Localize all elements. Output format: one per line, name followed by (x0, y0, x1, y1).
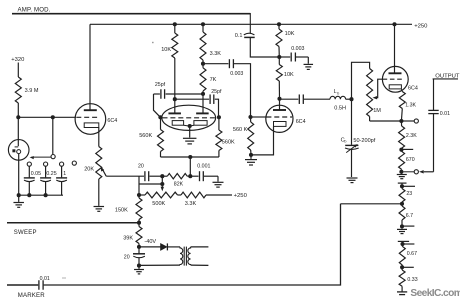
svg-text:MARKER: MARKER (18, 292, 45, 298)
svg-text:0.003: 0.003 (230, 71, 243, 77)
junction V3 grid (248, 115, 252, 119)
junction (137, 264, 141, 268)
variable capacitor Cb 50-200pf (351, 99, 353, 145)
ground (134, 269, 144, 271)
U1 plate (84, 109, 97, 111)
wire (250, 155, 252, 159)
V4 grid (383, 78, 402, 80)
junction (400, 265, 404, 269)
wire cathode node row (370, 120, 402, 122)
svg-text:20: 20 (138, 164, 144, 170)
svg-text:0.33: 0.33 (407, 277, 417, 283)
wire (138, 266, 140, 269)
svg-text:20: 20 (124, 254, 130, 260)
resistor 10K (grid) (276, 65, 282, 82)
ground (397, 291, 407, 293)
V3 grid (266, 116, 292, 118)
junction (188, 124, 192, 128)
wire tap (402, 225, 414, 227)
svg-text:6.7: 6.7 (406, 213, 413, 219)
junction (137, 221, 141, 225)
svg-text:1: 1 (63, 171, 66, 177)
svg-text:b: b (344, 140, 346, 144)
wire (139, 264, 180, 266)
resistor 1.3K (399, 92, 405, 109)
svg-text:23: 23 (406, 191, 412, 197)
wire cross-coupling (166, 93, 203, 95)
V2a plate (168, 112, 181, 114)
ground (397, 228, 407, 230)
V2 grids (163, 117, 216, 119)
junction (188, 174, 192, 178)
wire (206, 194, 232, 196)
triode U1 6C4 (75, 104, 106, 135)
wire cathode lead (98, 128, 100, 147)
junction (400, 184, 404, 188)
svg-text:0.01: 0.01 (40, 276, 50, 282)
ground (347, 177, 358, 179)
wire (433, 114, 435, 172)
svg-text:20K: 20K (84, 167, 94, 173)
wire plate lead V2a (174, 58, 176, 113)
resistor 82K (167, 174, 187, 179)
svg-text:0.05: 0.05 (31, 171, 41, 177)
svg-text:500K: 500K (152, 201, 165, 207)
junction (16, 115, 20, 119)
tap bar (398, 182, 407, 184)
wire tap to marker net (341, 203, 403, 205)
transformer T1 primary (180, 247, 183, 265)
svg-text:0.01: 0.01 (440, 111, 450, 117)
svg-text:560 K: 560 K (233, 127, 248, 133)
svg-text:560K: 560K (222, 139, 235, 145)
wire tap (402, 266, 414, 268)
wire (307, 57, 309, 64)
capacitor (coupling) (279, 98, 281, 100)
triode V3 6C4 (266, 105, 293, 132)
svg-text:0.003: 0.003 (291, 46, 304, 52)
switch contact 1 (27, 162, 31, 166)
wire to 1M top (352, 62, 370, 99)
ground (397, 174, 407, 176)
svg-text:1.3K: 1.3K (405, 103, 416, 109)
wire secondary top lead (191, 246, 209, 248)
transformer T1 core (183, 247, 185, 266)
svg-text:6C4: 6C4 (296, 119, 306, 125)
wire (369, 117, 371, 122)
resistor 3.3K (181, 192, 206, 198)
speck (62, 277, 66, 279)
wire (17, 103, 19, 117)
wire to grid V2a (154, 94, 161, 117)
junction V2b plate node (201, 92, 205, 96)
svg-text:-40V: -40V (144, 239, 156, 245)
phototube V1 (17, 117, 19, 146)
junction (201, 62, 205, 66)
junction V2a grid (158, 115, 162, 119)
wire secondary bottom lead (191, 264, 209, 266)
resistor 150K (136, 198, 142, 220)
svg-text:3.9 M: 3.9 M (25, 88, 39, 94)
resistor 10K (left) (174, 24, 176, 33)
resistor 560K (right grid leak) (218, 117, 220, 130)
wire to V3 grid (234, 64, 251, 117)
switch contact 3 (60, 162, 64, 166)
junction (249, 153, 253, 157)
switch S1 wiper arm (32, 156, 51, 158)
500K wiper arrow (161, 187, 164, 192)
dual triode V2 (162, 105, 216, 130)
junction (137, 245, 141, 249)
svg-text:b: b (337, 92, 339, 96)
resistor 670 (400, 150, 402, 152)
svg-text:39K: 39K (123, 236, 133, 242)
switch contact 4 (72, 161, 76, 165)
svg-text:7K: 7K (210, 77, 217, 83)
svg-text:SWEEP: SWEEP (14, 230, 37, 236)
svg-text:82K: 82K (174, 182, 184, 188)
svg-text:560K: 560K (139, 133, 152, 139)
svg-text:3.3K: 3.3K (210, 51, 222, 57)
V2a cathode (172, 121, 183, 126)
capacitor 1 (61, 166, 63, 177)
junction (277, 55, 281, 59)
wire tap (403, 243, 415, 245)
wire (250, 37, 279, 57)
wire (167, 246, 180, 248)
wire (189, 126, 191, 138)
junction (188, 155, 192, 159)
junction V3 plate node (277, 97, 281, 101)
wire (304, 98, 330, 100)
resistor 560K (left grid leak) (160, 117, 162, 129)
wire to grid V2b (215, 99, 219, 117)
V2b cathode (194, 121, 207, 126)
junction (399, 119, 403, 123)
junction (44, 193, 48, 197)
wire (17, 63, 19, 78)
wire plate lead V2b (202, 91, 204, 113)
Cb arrow (346, 145, 356, 152)
wire ground bus (17, 194, 63, 196)
V2b plate (196, 112, 209, 114)
svg-text:0.5H: 0.5H (334, 106, 346, 112)
svg-text:0.1: 0.1 (235, 33, 243, 39)
junction (201, 22, 205, 26)
junction (27, 193, 31, 197)
wire tap (402, 185, 415, 187)
svg-text:6C4: 6C4 (408, 86, 418, 92)
junction V2a plate node (173, 97, 177, 101)
triode V4 6C4 (382, 66, 408, 92)
wire (401, 226, 403, 228)
wire (400, 172, 402, 174)
ground (304, 63, 314, 65)
svg-text:+250: +250 (414, 24, 428, 30)
junction (400, 202, 404, 206)
wire cathode lead (400, 89, 403, 92)
junction V2b grid (217, 115, 221, 119)
wire grid node row (18, 116, 76, 118)
junction (392, 22, 396, 26)
inductor Lb 0.5H (330, 96, 346, 99)
resistor 6.7 (399, 206, 405, 220)
wire (433, 79, 435, 111)
V4 cathode (389, 85, 401, 89)
resistor 0.33 (399, 270, 405, 286)
wire (18, 195, 20, 202)
speck (152, 42, 154, 43)
ground (213, 181, 224, 183)
net MARKER (7, 284, 38, 286)
U1 cathode (84, 123, 99, 128)
wire tube1 plate lead (89, 24, 91, 110)
junction (173, 22, 177, 26)
svg-text:1M: 1M (373, 108, 381, 114)
junction (399, 148, 403, 152)
junction (399, 170, 403, 174)
20K wiper (102, 169, 106, 176)
resistor 3.3K (202, 24, 204, 32)
resistor 39K (136, 227, 142, 244)
wire (139, 183, 162, 185)
svg-text:50-200pf: 50-200pf (353, 138, 375, 144)
svg-text:25pf: 25pf (211, 89, 222, 95)
ground (94, 206, 105, 208)
wire cross-coupling (175, 98, 209, 100)
junction (400, 242, 404, 246)
V3 cathode (274, 122, 287, 127)
svg-text:0.001: 0.001 (197, 164, 210, 170)
junction (160, 182, 164, 186)
svg-text:3.3K: 3.3K (185, 201, 197, 207)
V3 plate (273, 109, 286, 111)
resistor 3.9M (15, 77, 21, 103)
resistor 7K (200, 68, 206, 91)
junction (277, 22, 281, 26)
junction (160, 174, 164, 178)
svg-text:0.25: 0.25 (46, 171, 56, 177)
wire (138, 176, 140, 195)
V4 plate (389, 72, 402, 74)
wire cathodes join (184, 124, 194, 127)
terminal (414, 119, 418, 123)
wire cathode lead (251, 126, 274, 154)
wire (189, 157, 191, 176)
svg-text:6C4: 6C4 (107, 118, 117, 124)
svg-text:+320: +320 (11, 57, 24, 63)
wire (351, 149, 353, 177)
net SWEEP (7, 222, 139, 224)
svg-text:25pf: 25pf (155, 82, 166, 88)
resistor 2.3K (400, 121, 402, 126)
svg-text:10K: 10K (161, 47, 171, 53)
wire (401, 286, 403, 291)
ground (245, 159, 257, 161)
resistor 0.67 (399, 246, 405, 265)
svg-text:10K: 10K (284, 72, 294, 78)
wire +250 bus (90, 23, 412, 25)
svg-text:10K: 10K (285, 31, 295, 37)
svg-text:670: 670 (406, 157, 415, 163)
wire to 500K wiper (161, 176, 163, 187)
junction (349, 97, 353, 101)
svg-text:+250: +250 (234, 193, 248, 199)
1M wiper from V4 grid (374, 79, 382, 98)
capacitor 0.05 (28, 166, 30, 177)
wire AMP.MOD. bus (12, 13, 250, 15)
terminal (414, 170, 418, 174)
junction (51, 115, 55, 119)
ground (13, 202, 24, 204)
wire (217, 176, 219, 181)
wire plate lead (394, 24, 396, 73)
svg-text:AMP. MOD.: AMP. MOD. (18, 6, 51, 13)
ground (183, 137, 197, 139)
wire marker to divider (44, 204, 341, 285)
U1 grid (76, 116, 99, 118)
svg-text:0.67: 0.67 (407, 251, 417, 257)
wire phototube cathode lead (18, 154, 20, 195)
potentiometer 20K (96, 147, 102, 180)
switch contact 2 (44, 162, 48, 166)
wire 560K common row (161, 156, 219, 158)
svg-text:150K: 150K (115, 208, 128, 214)
wire tap (401, 120, 414, 122)
arrow to output tap (419, 170, 424, 173)
svg-text:2.3K: 2.3K (406, 133, 417, 139)
tap bar (398, 240, 409, 242)
wire tap (401, 148, 413, 150)
switch S1 pole (52, 117, 54, 154)
wire (98, 179, 100, 206)
resistor 23 (399, 189, 405, 203)
wire to tap (424, 171, 434, 173)
capacitor 0.25 (45, 166, 47, 177)
junction (400, 224, 404, 228)
transformer T1 secondary (188, 247, 191, 265)
wire grid lead (251, 116, 267, 118)
svg-text:SeekIC.com: SeekIC.com (410, 288, 460, 298)
junction (137, 193, 141, 197)
diode CR1 (139, 246, 161, 248)
junction (17, 193, 21, 197)
wire plate lead (279, 99, 281, 110)
potentiometer 1M (367, 69, 373, 117)
wire from 20K wiper (106, 175, 144, 177)
